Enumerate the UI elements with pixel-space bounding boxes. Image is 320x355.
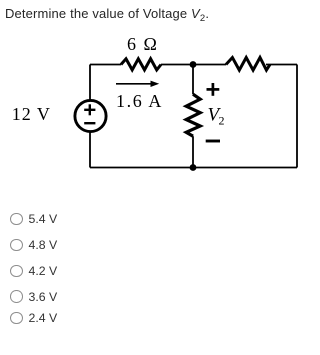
resistor R2 (top-right, unlabeled): [226, 58, 270, 71]
current arrow 1.6 A: [116, 83, 152, 85]
wire left bottom (source to bottom wire): [89, 132, 91, 168]
wire bottom: [90, 167, 297, 169]
option B radio 4.8 V: [10, 238, 57, 252]
wire top-middle segment: [161, 64, 226, 66]
minus sign inside source: [84, 122, 95, 124]
node top junction: [190, 61, 197, 68]
plus sign inside source: [84, 109, 95, 111]
wire top-left segment: [90, 64, 121, 66]
option A radio 5.4 V: [10, 212, 57, 226]
svg-text:1.6 A: 1.6 A: [116, 91, 163, 111]
svg-text:6 Ω: 6 Ω: [127, 34, 158, 54]
wire right side: [296, 65, 298, 168]
node bottom junction: [190, 164, 197, 171]
wire top-right segment: [266, 64, 297, 66]
resistor R3 V2 (middle vertical): [186, 94, 200, 136]
option E radio 2.4 V: [10, 311, 57, 325]
svg-text:12 V: 12 V: [12, 104, 51, 124]
wire left top (source to top wire): [89, 65, 91, 101]
wire middle branch lower: [192, 136, 194, 167]
svg-text:2: 2: [219, 114, 225, 128]
resistor R1 6 ohm (top-left): [121, 59, 161, 70]
option C radio 4.2 V: [10, 264, 57, 278]
wire middle branch upper: [192, 65, 194, 95]
question title: [5, 6, 209, 21]
voltage source V 12V: [75, 100, 106, 131]
plus sign label of V2 polarity: [207, 88, 220, 91]
option D radio 3.6 V: [10, 290, 57, 304]
minus sign label of V2 polarity: [206, 140, 220, 143]
